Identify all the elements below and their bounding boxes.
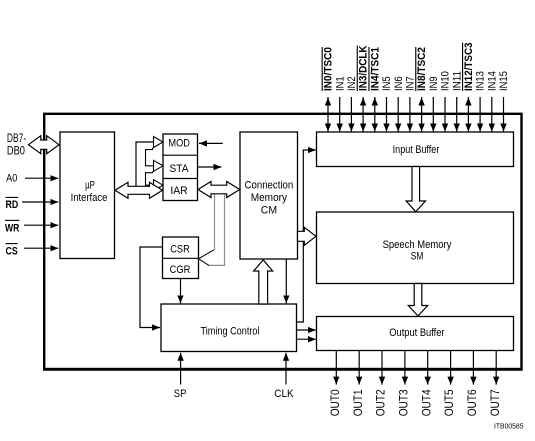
svg-text:OUT3: OUT3: [397, 389, 411, 416]
pin IN8/TSC2 wire: [421, 97, 423, 132]
svg-text:Output Buffer: Output Buffer: [389, 327, 445, 339]
svg-text:SM: SM: [411, 251, 424, 263]
register stack CSR/CGR: [163, 237, 199, 279]
svg-text:Timing Control: Timing Control: [201, 325, 260, 337]
wire CGR down to Timing Control: [180, 279, 182, 304]
svg-text:IN5: IN5: [381, 76, 393, 91]
pin IN2 wire: [350, 97, 352, 132]
svg-text:MOD: MOD: [168, 137, 190, 149]
pin A0 wire: [6, 172, 58, 184]
pin IN15 wire: [503, 97, 505, 132]
svg-text:IN7: IN7: [405, 76, 417, 91]
pin OUT0 wire: [335, 351, 337, 385]
svg-text:OUT2: OUT2: [374, 389, 388, 416]
pin IN0/TSC0 up arrowhead: [327, 98, 329, 106]
svg-text:IN11: IN11: [451, 71, 463, 91]
svg-text:A0: A0: [6, 172, 17, 184]
pin OUT2 wire: [381, 351, 383, 385]
bus arrow IAR to Connection Memory: [198, 182, 240, 198]
pin IN4/TSC1 up arrowhead: [374, 98, 376, 106]
wire CM down to Timing Control: [285, 259, 287, 303]
pin IN10 wire: [444, 97, 446, 132]
svg-text:Speech Memory: Speech Memory: [383, 239, 452, 251]
block Input Buffer: [317, 132, 514, 167]
bus arrow uP Interface to registers: [115, 182, 163, 198]
bus arrow DB7-DB0 to uP Interface: [29, 136, 60, 154]
svg-text:CS: CS: [6, 245, 19, 257]
svg-text:CGR: CGR: [170, 264, 191, 276]
svg-text:CLK: CLK: [274, 388, 293, 400]
chip outer boundary: [44, 114, 521, 369]
svg-text:WR: WR: [5, 222, 19, 234]
pin label DB7-DB0: [7, 133, 26, 157]
svg-text:OUT5: OUT5: [442, 389, 456, 416]
svg-text:IN0/TSC0: IN0/TSC0: [323, 47, 335, 91]
wire bracket into MOD: [136, 142, 153, 186]
pin OUT4 wire: [427, 351, 429, 385]
wire out of STA to right: [198, 166, 222, 168]
pin IN14 wire: [491, 97, 493, 132]
pin OUT3 wire: [404, 351, 406, 385]
pin IN13 wire: [479, 97, 481, 132]
svg-text:IN12/TSC3: IN12/TSC3: [463, 43, 475, 92]
svg-text:CSR: CSR: [170, 243, 190, 255]
pin IN5 wire: [386, 97, 388, 132]
hook STA to IAR: [146, 172, 154, 186]
pin IN3/DCLK wire: [362, 97, 364, 132]
open arrowhead duct into CSR: [199, 250, 214, 266]
hollow arrow Speech Memory to Output Buffer: [408, 284, 427, 317]
hollow arrow Input Buffer to Speech Memory: [406, 167, 425, 212]
block Output Buffer: [317, 317, 514, 351]
svg-text:OUT7: OUT7: [488, 389, 502, 416]
svg-text:OUT0: OUT0: [328, 389, 342, 416]
svg-text:µP: µP: [85, 180, 95, 192]
pin IN7 wire: [409, 97, 411, 132]
wire Timing Control to Output Buffer 1: [297, 329, 316, 331]
pin CLK wire: [274, 353, 293, 400]
svg-text:IAR: IAR: [170, 185, 188, 197]
svg-text:Connection: Connection: [245, 180, 294, 192]
pin SP wire: [174, 353, 187, 400]
pin IN9 wire: [432, 97, 434, 132]
block Timing Control: [161, 304, 297, 352]
svg-text:IN2: IN2: [346, 76, 358, 91]
svg-text:SP: SP: [174, 388, 187, 400]
pin OUT5 wire: [450, 351, 452, 385]
pin OUT6 wire: [472, 351, 474, 385]
svg-text:IN4/TSC1: IN4/TSC1: [369, 47, 381, 91]
svg-text:OUT1: OUT1: [351, 389, 365, 416]
block Speech Memory SM: [317, 212, 514, 284]
pin IN8/TSC2 up arrowhead: [421, 98, 423, 106]
pin IN3/DCLK up arrowhead: [362, 98, 364, 106]
pin IN12/TSC3 wire: [467, 97, 469, 132]
svg-text:ITB00585: ITB00585: [494, 421, 524, 430]
svg-text:IN3/DCLK: IN3/DCLK: [358, 45, 370, 91]
wire CSR to Timing Control: [140, 247, 163, 328]
wire Timing Control to Input Buffer: [297, 150, 316, 322]
svg-text:IN15: IN15: [498, 71, 510, 91]
pin CS wire: [6, 244, 59, 258]
pin IN12/TSC3 up arrowhead: [467, 98, 469, 106]
svg-text:IN13: IN13: [475, 71, 487, 91]
pin IN6 wire: [397, 97, 399, 132]
svg-text:IN10: IN10: [440, 71, 452, 91]
pin RD wire: [6, 197, 59, 211]
block Connection Memory CM: [240, 132, 298, 259]
svg-text:STA: STA: [170, 163, 190, 175]
svg-text:CM: CM: [261, 205, 277, 217]
svg-text:Input Buffer: Input Buffer: [393, 144, 440, 156]
hollow arrow CM to Speech Memory: [298, 227, 317, 245]
pin IN11 wire: [456, 97, 458, 132]
svg-text:DB0: DB0: [7, 145, 25, 157]
svg-text:IN1: IN1: [334, 76, 346, 91]
svg-text:IN6: IN6: [393, 76, 405, 91]
wire into MOD from right: [199, 142, 223, 144]
hollow arrow Timing Control up to CM: [254, 260, 273, 304]
svg-text:Interface: Interface: [71, 192, 108, 204]
pin IN4/TSC1 wire: [374, 97, 376, 132]
svg-text:RD: RD: [6, 199, 19, 211]
block uP Interface: [60, 132, 115, 259]
pin OUT1 wire: [358, 351, 360, 385]
svg-text:IN9: IN9: [428, 76, 440, 91]
svg-text:Memory: Memory: [251, 192, 288, 204]
gray duct IAR bus down to CSR: [214, 190, 216, 250]
svg-text:OUT4: OUT4: [419, 389, 433, 416]
register stack MOD/STA/IAR: [163, 134, 198, 201]
pin WR wire: [5, 220, 58, 234]
pin IN1 wire: [339, 97, 341, 132]
wire Timing Control to Output Buffer 2: [297, 338, 316, 340]
svg-text:IN14: IN14: [486, 71, 498, 91]
svg-text:IN8/TSC2: IN8/TSC2: [416, 47, 428, 91]
svg-text:DB7-: DB7-: [7, 133, 26, 145]
pin IN0/TSC0 wire: [327, 97, 329, 132]
svg-text:OUT6: OUT6: [465, 389, 479, 416]
pin OUT7 wire: [495, 351, 497, 385]
hook MOD to STA: [146, 148, 154, 166]
